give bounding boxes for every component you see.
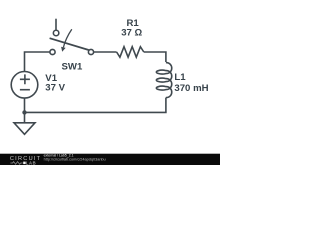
- svg-text:L1: L1: [174, 72, 186, 83]
- svg-text:37 Ω: 37 Ω: [121, 28, 142, 39]
- SW1 right terminal: [88, 49, 93, 54]
- SW1 lower-left terminal: [50, 49, 55, 54]
- watermark bar: [0, 154, 220, 165]
- logo square: [23, 162, 26, 165]
- ground: [14, 112, 35, 134]
- wire resistor to inductor: [144, 52, 166, 62]
- resistor R1: [117, 47, 144, 58]
- svg-text:SW1: SW1: [62, 61, 83, 72]
- switch SW1: [50, 19, 94, 55]
- SW1 lever: [50, 38, 89, 50]
- wire left vertical + top to switch: [25, 52, 50, 71]
- V1 bottom stub: [24, 98, 26, 112]
- V1 plus sign: [20, 74, 30, 84]
- inductor L1 coil: [156, 63, 171, 98]
- svg-text:37 V: 37 V: [45, 82, 65, 93]
- ground stub: [24, 112, 26, 123]
- wire switch to resistor: [94, 51, 117, 53]
- SW1 toggle arrow: [63, 29, 71, 47]
- logo zigzag: [10, 162, 22, 165]
- svg-text:http://circuitlab.com/c/24apdq: http://circuitlab.com/c/24apdq03anbu: [44, 158, 106, 162]
- SW1 upper terminal: [53, 30, 59, 36]
- wire inductor bottom to ground rail: [25, 98, 166, 113]
- junction dot: [22, 110, 26, 114]
- V1 minus sign: [20, 89, 30, 91]
- svg-text:370 mH: 370 mH: [174, 83, 208, 94]
- V1 circle: [11, 72, 38, 99]
- SW1 top stub: [55, 19, 57, 31]
- svg-text:LAB: LAB: [26, 161, 36, 165]
- voltage source V1: [11, 72, 38, 113]
- ground triangle: [14, 123, 35, 135]
